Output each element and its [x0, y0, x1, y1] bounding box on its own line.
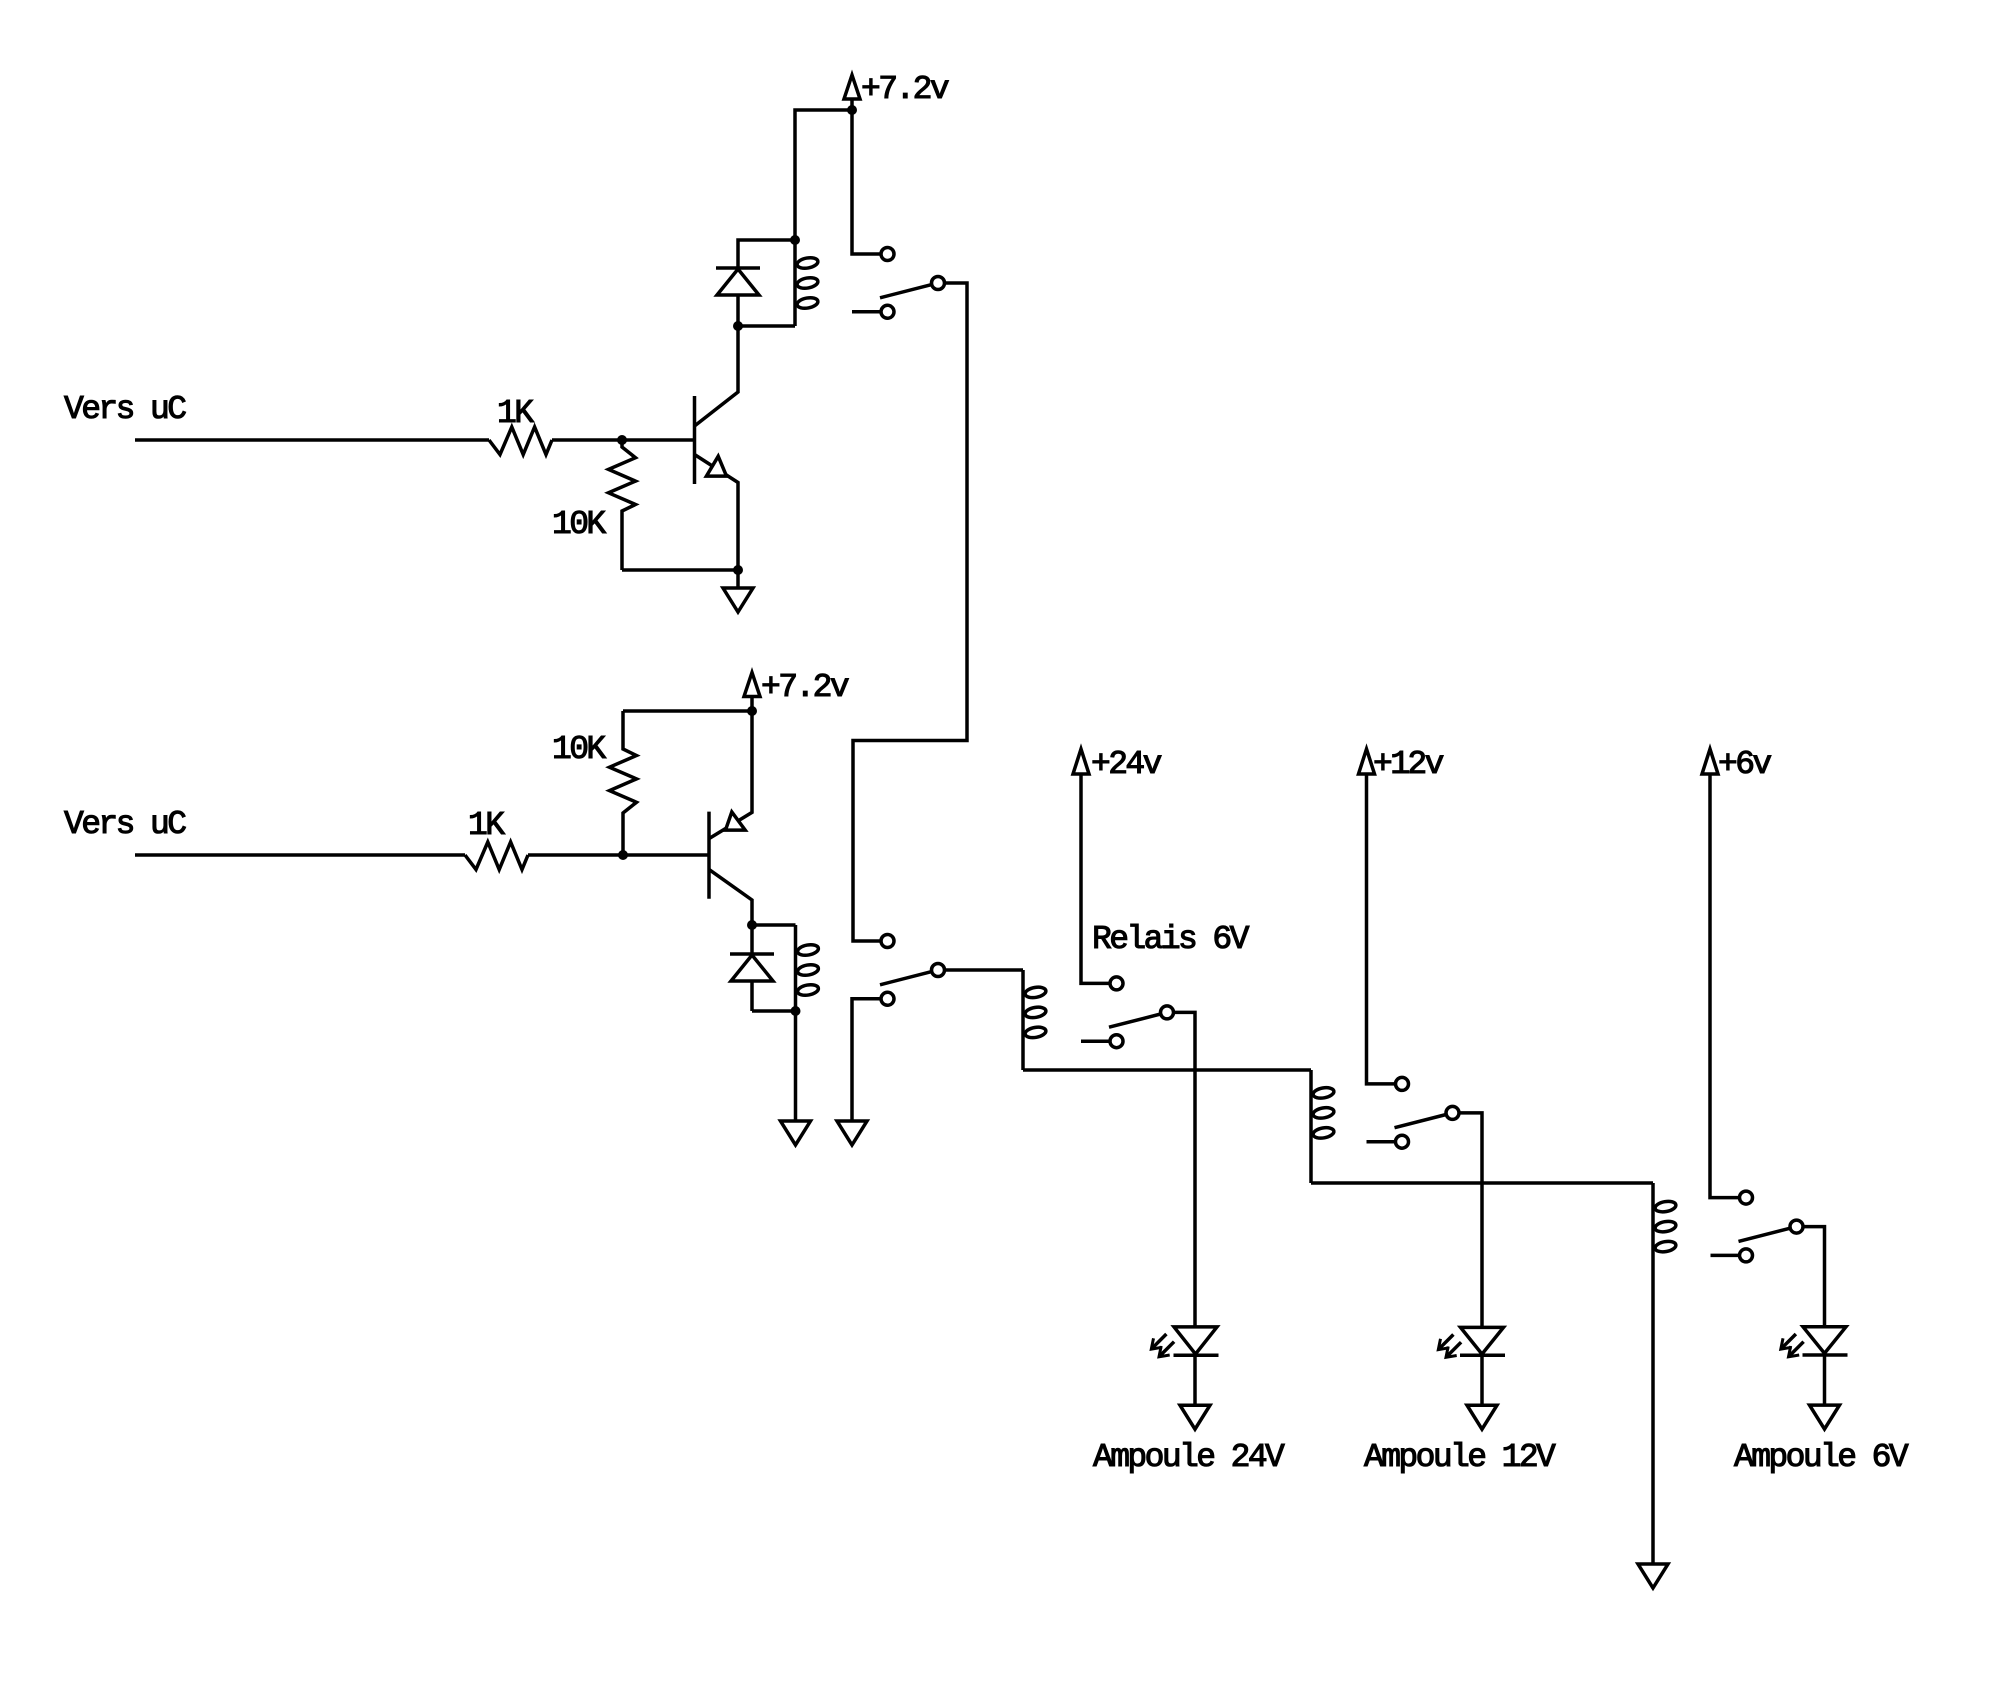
relay 3 NO contact — [1110, 977, 1123, 990]
ground: relay 2 coil — [781, 1121, 811, 1145]
power +7.2v (stage 2 supply) — [744, 669, 849, 711]
ground: relay 2 NC — [837, 1121, 867, 1145]
relay 4 common contact — [1446, 1106, 1459, 1119]
svg-text:Ampoule 24V: Ampoule 24V — [1093, 1439, 1285, 1476]
wire: 10K top to +7.2v node — [623, 709, 752, 713]
svg-text:1K: 1K — [497, 395, 534, 432]
relay 2 switch blade — [880, 972, 932, 985]
wire: relay 5 common to lamp 6V — [1803, 1227, 1825, 1327]
relay 1 common contact — [932, 277, 945, 290]
wire: coil 3 bottom to coil 4 top — [1023, 1068, 1311, 1072]
relay 5 NO contact — [1740, 1191, 1753, 1204]
relay 4 NO contact — [1396, 1077, 1409, 1090]
svg-text:Ampoule 6V: Ampoule 6V — [1734, 1439, 1909, 1476]
relay 1 NO contact — [881, 248, 894, 261]
relay 2 NC contact — [881, 992, 894, 1005]
wire: +7.2v down to relay 1 NO contact — [852, 110, 881, 254]
ground: lamp 12V — [1467, 1405, 1497, 1429]
wire: 10K bottom to emitter node — [622, 568, 738, 572]
relay 4 NC contact — [1396, 1135, 1409, 1148]
wire: +24v down to relay 3 NO — [1081, 774, 1110, 983]
svg-text:+7.2v: +7.2v — [861, 71, 949, 108]
relay 4 switch blade — [1395, 1115, 1447, 1128]
svg-text:Vers uC: Vers uC — [64, 391, 186, 428]
relay 5 switch blade — [1739, 1228, 1791, 1241]
wire: +7.2v to coil 1 top — [795, 110, 852, 240]
svg-text:+7.2v: +7.2v — [761, 669, 849, 706]
diode D2 (flyback, relay 2) — [730, 925, 774, 1011]
relay 1 NC contact — [881, 305, 894, 318]
wire: Vers uC input 2 — [135, 853, 465, 857]
wire: relay 2 NC to ground — [852, 999, 881, 1121]
relay 3 common contact — [1161, 1006, 1174, 1019]
power +12v — [1359, 746, 1444, 783]
wire: +12v down to relay 4 NO — [1367, 774, 1396, 1084]
wire: relay 5 NC stub — [1711, 1254, 1740, 1258]
wire: coil 1 top to diode D1 — [738, 240, 795, 268]
relay coil K4 — [1311, 1070, 1335, 1183]
relay coil K2 — [796, 925, 820, 1011]
relay coil K5 — [1653, 1183, 1677, 1564]
svg-text:+6v: +6v — [1718, 746, 1771, 783]
node: +7.2v junction 1 — [847, 105, 857, 115]
wire: diode bottom to coil 1 bottom — [738, 324, 795, 328]
svg-text:Relais 6V: Relais 6V — [1092, 921, 1250, 958]
relay 2 NO contact — [881, 935, 894, 948]
resistor R1 1K (stage 1 base resistor) — [489, 427, 552, 455]
ground: lamp 6V — [1810, 1405, 1840, 1429]
relay 3 switch blade — [1109, 1014, 1161, 1027]
wire: relay 1 common to relay 2 NO — [853, 283, 967, 941]
relay 1 switch blade — [880, 285, 932, 298]
LED lamp Ampoule 6V — [1781, 1327, 1848, 1357]
wire: diode 2 bottom to coil 2 bottom — [752, 1009, 796, 1013]
svg-text:+12v: +12v — [1373, 746, 1444, 783]
power +24v — [1073, 746, 1162, 783]
node: coil 1 bottom junction — [733, 321, 743, 331]
resistor R3 1K (stage 2 base resistor) — [465, 842, 528, 870]
node: junction base/10K stage 2 — [618, 850, 628, 860]
wire: coil 4 bottom to coil 5 top — [1311, 1181, 1653, 1185]
wire: relay 1 NC stub — [852, 310, 881, 314]
transistor Q1 (NPN, stage 1) — [695, 326, 739, 588]
wire: lamp 12V to ground — [1480, 1355, 1484, 1405]
LED lamp Ampoule 24V — [1151, 1327, 1218, 1357]
node: coil 2 bottom junction — [791, 1006, 801, 1016]
power +6v — [1702, 746, 1771, 783]
wire: R3 to Q2 base — [528, 853, 709, 857]
wire: node to coil 2 top — [752, 923, 796, 927]
svg-text:10K: 10K — [552, 731, 606, 768]
ground: lamp 24V — [1180, 1405, 1210, 1429]
node: coil 1 top junction — [790, 235, 800, 245]
wire: coil 2 bottom to ground — [794, 1011, 798, 1121]
power +7.2v (relay 1 supply) — [844, 71, 949, 110]
wire: relay 3 common to lamp 24V — [1174, 1012, 1196, 1327]
svg-text:10K: 10K — [552, 506, 606, 543]
relay coil K3 (Relais 6V) — [1023, 970, 1047, 1070]
wire: lamp 6V to ground — [1823, 1355, 1827, 1405]
svg-text:Ampoule 12V: Ampoule 12V — [1364, 1439, 1556, 1476]
svg-text:+24v: +24v — [1091, 746, 1162, 783]
node: coil 2 top junction — [747, 920, 757, 930]
wire: Vers uC input 1 — [135, 438, 489, 442]
wire: relay 4 common to lamp 12V — [1459, 1113, 1482, 1328]
transistor Q2 (PNP, stage 2) — [709, 711, 752, 925]
wire: relay 2 common to coil 3 — [945, 968, 1024, 972]
diode D1 (flyback, relay 1) — [716, 268, 760, 326]
wire: R1 to Q1 base — [552, 438, 695, 442]
wire: +6v down to relay 5 NO — [1710, 774, 1740, 1198]
wire: relay 4 NC stub — [1367, 1140, 1396, 1144]
ground: stage 1 emitter — [723, 588, 753, 612]
svg-text:Vers uC: Vers uC — [64, 806, 186, 843]
relay 2 common contact — [932, 964, 945, 977]
LED lamp Ampoule 12V — [1438, 1327, 1505, 1357]
wire: lamp 24V to ground — [1193, 1355, 1197, 1405]
ground: coil 5 return — [1638, 1564, 1668, 1588]
svg-text:1K: 1K — [468, 807, 505, 844]
resistor R4 10K (stage 2 pullup) — [610, 711, 637, 855]
relay 5 NC contact — [1740, 1249, 1753, 1262]
relay 5 common contact — [1790, 1220, 1803, 1233]
wire: relay 3 NC stub — [1081, 1039, 1110, 1043]
relay 3 NC contact — [1110, 1035, 1123, 1048]
node: junction base/10K stage 1 — [617, 435, 627, 445]
node: +7.2v junction 2 — [747, 706, 757, 716]
node: junction emitter/10K/ground stage 1 — [733, 565, 743, 575]
resistor R2 10K (stage 1 pulldown) — [609, 440, 636, 570]
relay coil K1 — [795, 240, 819, 326]
